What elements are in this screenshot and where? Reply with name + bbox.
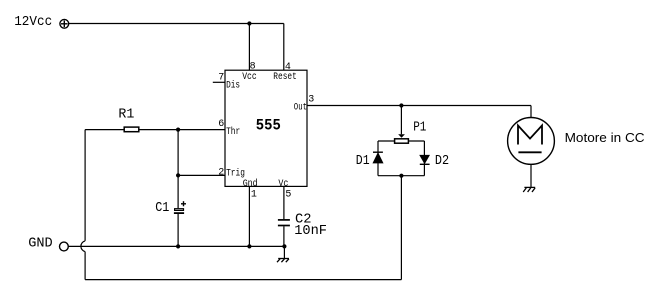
- svg-text:555: 555: [256, 117, 281, 135]
- svg-text:R1: R1: [118, 107, 134, 123]
- junction pin 1 / GND rail: [247, 244, 251, 248]
- wire motor drop: [530, 106, 532, 118]
- wire pin 4 drop: [283, 24, 285, 71]
- wire pin 3 Out horizontal: [307, 105, 531, 107]
- pin 2 label Trig: [226, 168, 245, 180]
- svg-text:Thr: Thr: [226, 126, 240, 138]
- capacitor C1 positive plate: [175, 209, 184, 211]
- pin 8 number: [250, 62, 256, 73]
- pin 2 number: [218, 168, 224, 179]
- pin 3 number: [308, 94, 314, 105]
- wire pin 6 Thr horizontal: [85, 129, 225, 131]
- pin 6 label Thr: [226, 126, 240, 138]
- wire GND rail: [69, 245, 285, 247]
- wire pin 1 Gnd drop: [248, 186, 250, 246]
- earth stub below C2: [283, 246, 285, 258]
- pin 4 label Reset: [273, 72, 297, 83]
- wire Trig horizontal pin 2: [178, 174, 225, 176]
- svg-text:Motore in CC: Motore in CC: [565, 130, 645, 145]
- junction C1 / GND rail: [176, 244, 180, 248]
- junction C2 / GND rail / earth: [282, 244, 286, 248]
- pin 1 number: [251, 189, 257, 200]
- svg-text:Out: Out: [294, 102, 307, 113]
- label 10nF: [294, 223, 327, 239]
- wire P1 wiper drop: [400, 106, 402, 135]
- junction bracket bottom / drop: [399, 174, 403, 178]
- label 12Vcc: [14, 14, 52, 30]
- P1 wiper arrowhead: [398, 134, 405, 138]
- pin 6 number: [218, 119, 224, 130]
- svg-text:10nF: 10nF: [294, 223, 327, 239]
- capacitor C2 bottom plate: [278, 225, 290, 227]
- capacitor C1 negative plate: [174, 212, 184, 214]
- resistor R1 body: [124, 127, 139, 132]
- svg-text:Dis: Dis: [226, 79, 240, 91]
- svg-text:2: 2: [218, 168, 224, 179]
- wire P1 bracket top: [378, 140, 424, 142]
- motor M1 circle: [508, 117, 555, 164]
- label P1: [413, 119, 426, 135]
- wire C1 branch upper: [177, 130, 179, 209]
- pin 3 label Out: [294, 102, 307, 113]
- diode D2: [420, 155, 430, 164]
- C1 polarity plus: [181, 201, 186, 206]
- junction Thr / C1 branch: [176, 128, 180, 132]
- svg-text:4: 4: [285, 62, 291, 73]
- pin 7 label Dis: [226, 79, 240, 91]
- wire bracket drop to bottom rail: [400, 176, 402, 280]
- svg-text:Gnd: Gnd: [243, 178, 258, 190]
- pin 8 label Vcc: [242, 72, 257, 83]
- svg-text:8: 8: [250, 62, 256, 73]
- svg-text:Trig: Trig: [226, 168, 245, 180]
- wire motor ground stub: [530, 164, 532, 187]
- wire hop over GND rail: [81, 241, 85, 252]
- diode D1: [373, 152, 383, 163]
- svg-text:C1: C1: [155, 200, 169, 216]
- pin 7 number: [218, 73, 224, 84]
- label Motore in CC: [565, 130, 645, 145]
- wire left rail vertical upper: [84, 130, 86, 241]
- power terminal 12Vcc (+): [60, 19, 69, 28]
- label R1: [118, 107, 134, 123]
- wire pin 8 drop: [248, 24, 250, 71]
- svg-text:D1: D1: [356, 153, 370, 169]
- potentiometer P1 body: [395, 139, 409, 143]
- wire P1 bracket bottom: [378, 175, 424, 177]
- label C2: [295, 212, 312, 228]
- svg-text:Vcc: Vcc: [242, 72, 257, 83]
- wire top rail 12Vcc: [69, 23, 284, 25]
- svg-text:D2: D2: [435, 153, 449, 169]
- pin 4 number: [285, 62, 291, 73]
- pin 5 label Vc: [278, 179, 288, 190]
- pin 5 number: [285, 189, 291, 200]
- label GND: [28, 235, 53, 251]
- capacitor C2 top plate: [278, 219, 290, 221]
- svg-text:7: 7: [218, 73, 224, 84]
- label D2: [435, 153, 449, 169]
- earth ground symbol at C2: [277, 259, 289, 263]
- wire C2 lower lead: [283, 226, 285, 246]
- pin 7 stub Dis: [213, 81, 225, 83]
- junction Trig / C1 branch: [176, 173, 180, 177]
- svg-text:3: 3: [308, 94, 314, 105]
- svg-text:5: 5: [285, 189, 291, 200]
- label C1: [155, 200, 169, 216]
- junction Out / P1: [399, 103, 403, 107]
- pin 1 label Gnd: [243, 178, 258, 190]
- motor M glyph: [518, 126, 542, 153]
- svg-text:Reset: Reset: [273, 72, 297, 83]
- wire left rail vertical lower: [84, 252, 86, 280]
- junction top rail / pin 8: [247, 21, 251, 25]
- svg-text:1: 1: [251, 189, 257, 200]
- wire bottom rail: [85, 279, 401, 281]
- svg-text:6: 6: [218, 119, 224, 130]
- svg-text:P1: P1: [413, 119, 426, 135]
- wire P1 bracket right vertical: [423, 141, 425, 176]
- wire C1 lower lead: [177, 214, 179, 247]
- earth ground symbol at motor: [523, 187, 535, 192]
- label D1: [356, 153, 370, 169]
- svg-text:GND: GND: [28, 235, 53, 251]
- label 555: [256, 117, 281, 135]
- svg-text:12Vcc: 12Vcc: [14, 14, 52, 30]
- ground terminal GND: [60, 242, 69, 251]
- wire pin 5 Vc drop: [283, 186, 285, 219]
- wire P1 bracket left vertical: [377, 141, 379, 176]
- IC U1 555 body: [225, 70, 307, 186]
